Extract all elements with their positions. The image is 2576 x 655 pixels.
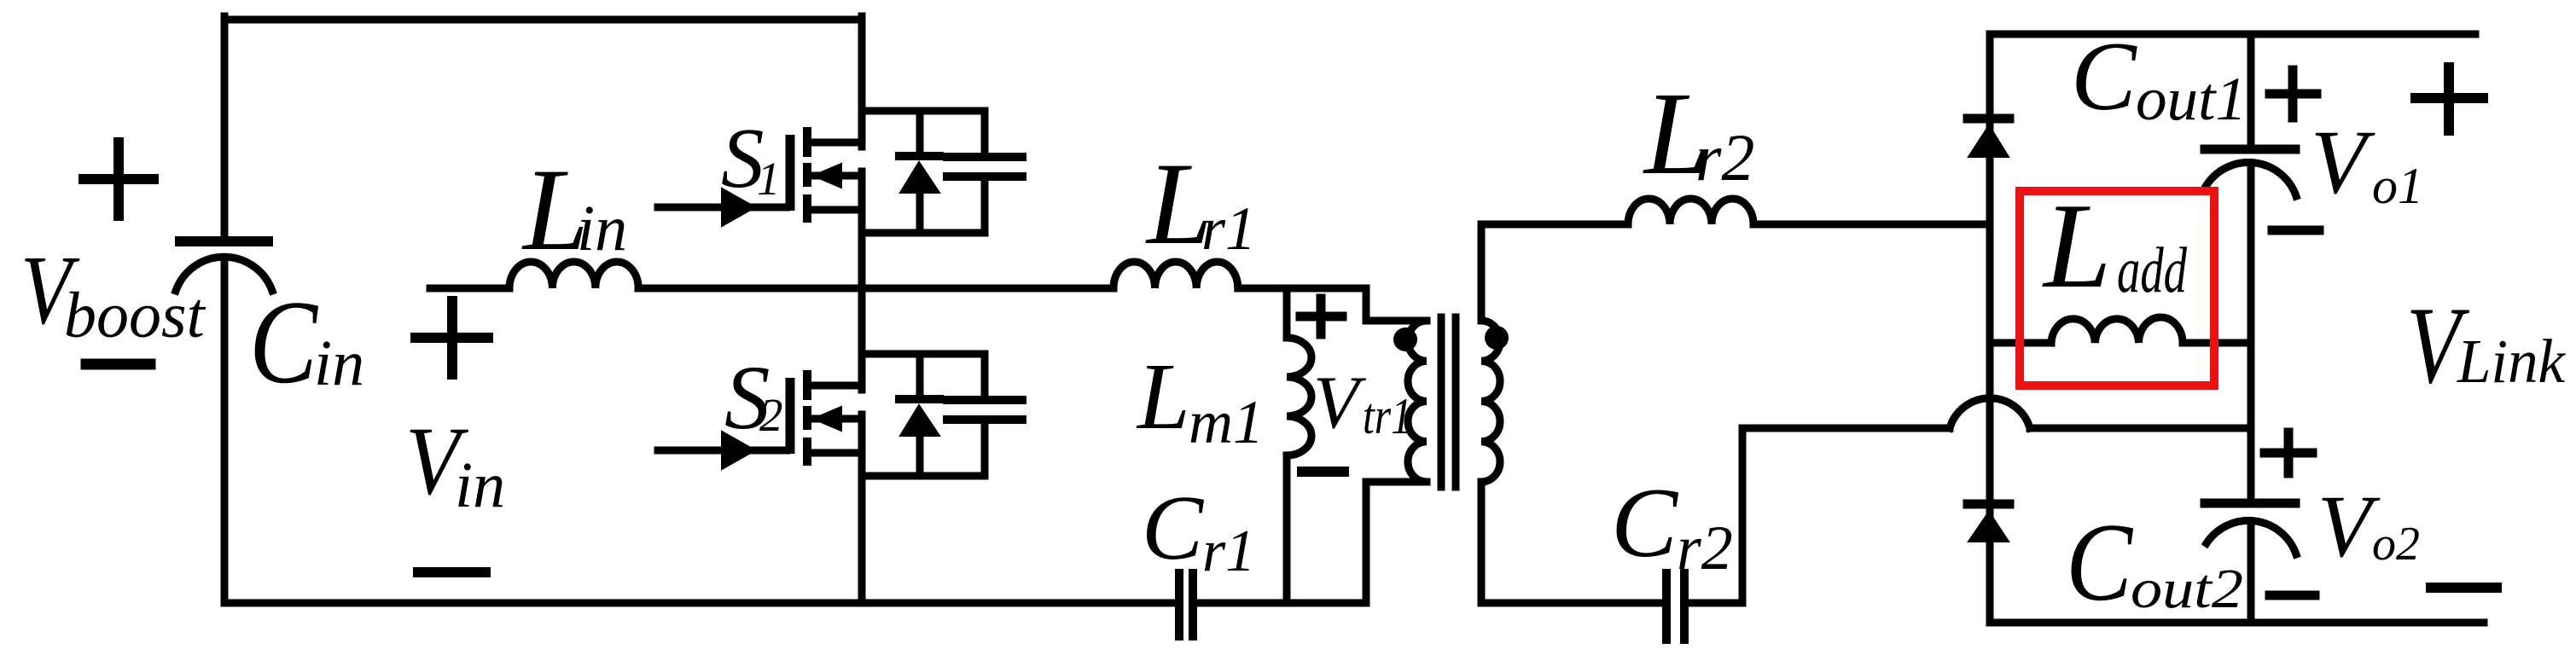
svg-text:V: V bbox=[2311, 113, 2375, 213]
plus Vtr1 bbox=[1300, 299, 1342, 334]
svg-text:r2: r2 bbox=[1695, 120, 1754, 194]
minus Vboost bbox=[86, 359, 150, 370]
svg-text:r2: r2 bbox=[1677, 513, 1733, 583]
svg-text:Link: Link bbox=[2457, 327, 2567, 396]
wire center bus segment B bbox=[858, 171, 866, 390]
inductor Lr1 bbox=[1114, 262, 1238, 288]
svg-text:in: in bbox=[577, 193, 627, 264]
wire rectifier top rail bbox=[1990, 31, 2475, 38]
wire secondary top riser bbox=[1481, 224, 1628, 321]
wire center bus segment A bbox=[858, 16, 866, 147]
svg-text:C: C bbox=[2066, 501, 2133, 624]
minus VLink bbox=[2431, 583, 2497, 593]
inductor Lm1 bbox=[1287, 288, 1311, 603]
wire rectifier bottom rail bbox=[1990, 619, 2484, 627]
capacitor Cr2 bbox=[1666, 573, 1742, 640]
wire secondary bottom bbox=[1481, 482, 1663, 603]
wire left rail upper bbox=[221, 16, 229, 237]
svg-text:2: 2 bbox=[759, 389, 783, 441]
inductor Ladd bbox=[1990, 317, 2251, 343]
svg-text:in: in bbox=[314, 327, 364, 399]
transistor Q S2 bbox=[658, 370, 862, 469]
wire rectifier left bus bbox=[1986, 34, 1994, 623]
diode D bottom bbox=[1968, 504, 2009, 542]
capacitor Cout1 bbox=[2205, 149, 2296, 499]
diode D S1 body bbox=[899, 156, 939, 193]
wire input stub bbox=[430, 285, 509, 293]
svg-text:r1: r1 bbox=[1201, 194, 1256, 263]
transformer core bbox=[1441, 317, 1456, 487]
plus Vo2 bbox=[2265, 432, 2312, 473]
transistor Q S1 bbox=[658, 127, 862, 226]
wire Cr2 riser bbox=[1742, 428, 1950, 603]
capacitor Cin bbox=[176, 241, 272, 603]
wire hop to right bus bbox=[2030, 425, 2251, 432]
wire middle rail right bbox=[1238, 285, 1366, 293]
svg-text:in: in bbox=[455, 449, 505, 521]
diode D S2 body bbox=[899, 399, 939, 436]
wire bottom rail left bbox=[224, 600, 1175, 607]
capacitor S2 snubber bbox=[947, 400, 1022, 420]
diode D top bbox=[1968, 119, 2009, 157]
wire primary bottom bbox=[1366, 482, 1427, 603]
svg-text:m1: m1 bbox=[1189, 388, 1264, 456]
plus Vin bbox=[416, 301, 488, 374]
wire hop over bus bbox=[1950, 398, 2030, 428]
minus Vtr1 bbox=[1302, 467, 1344, 477]
wire Lr2 to rectifier bbox=[1753, 221, 1990, 229]
wire center bus segment C bbox=[858, 414, 866, 603]
plus Vboost bbox=[84, 142, 154, 216]
wire right bus upper bbox=[2247, 34, 2255, 145]
svg-text:C: C bbox=[1142, 478, 1205, 579]
node dot secondary bbox=[1485, 326, 1509, 350]
svg-text:C: C bbox=[1611, 468, 1679, 578]
svg-text:add: add bbox=[2117, 235, 2188, 306]
inductor Lr2 bbox=[1628, 199, 1753, 224]
svg-text:boost: boost bbox=[64, 280, 206, 351]
svg-text:L: L bbox=[2042, 178, 2112, 313]
svg-text:r1: r1 bbox=[1202, 519, 1255, 584]
wire middle rail bbox=[638, 285, 1114, 293]
wire top rail bbox=[224, 16, 862, 24]
svg-text:o2: o2 bbox=[2372, 518, 2420, 571]
capacitor Cr1 bbox=[1179, 573, 1366, 636]
svg-text:out1: out1 bbox=[2136, 65, 2247, 133]
svg-text:1: 1 bbox=[757, 153, 781, 205]
node dot primary bbox=[1393, 327, 1417, 351]
capacitor Cout2 bbox=[2205, 503, 2296, 623]
transformer secondary winding bbox=[1481, 321, 1500, 482]
svg-text:V: V bbox=[1313, 362, 1367, 444]
svg-text:o1: o1 bbox=[2372, 158, 2423, 214]
svg-text:C: C bbox=[249, 276, 318, 409]
plus VLink bbox=[2416, 67, 2483, 130]
minus Vin bbox=[418, 567, 486, 577]
inductor Lin bbox=[509, 262, 638, 288]
svg-text:out2: out2 bbox=[2131, 558, 2243, 620]
wire S1 snubber box bbox=[862, 111, 985, 233]
plus Vo1 bbox=[2270, 70, 2317, 118]
highlight box red bbox=[2020, 191, 2214, 385]
wire S2 snubber box bbox=[862, 354, 985, 476]
capacitor S1 snubber bbox=[947, 157, 1022, 177]
minus Vo2 bbox=[2270, 591, 2315, 600]
svg-text:C: C bbox=[2071, 22, 2137, 130]
minus Vo1 bbox=[2272, 226, 2319, 235]
svg-text:V: V bbox=[2317, 478, 2381, 576]
transformer primary winding bbox=[1408, 321, 1427, 482]
svg-text:tr1: tr1 bbox=[1363, 388, 1412, 444]
svg-text:L: L bbox=[1136, 345, 1190, 449]
wire step to primary bbox=[1366, 288, 1427, 321]
